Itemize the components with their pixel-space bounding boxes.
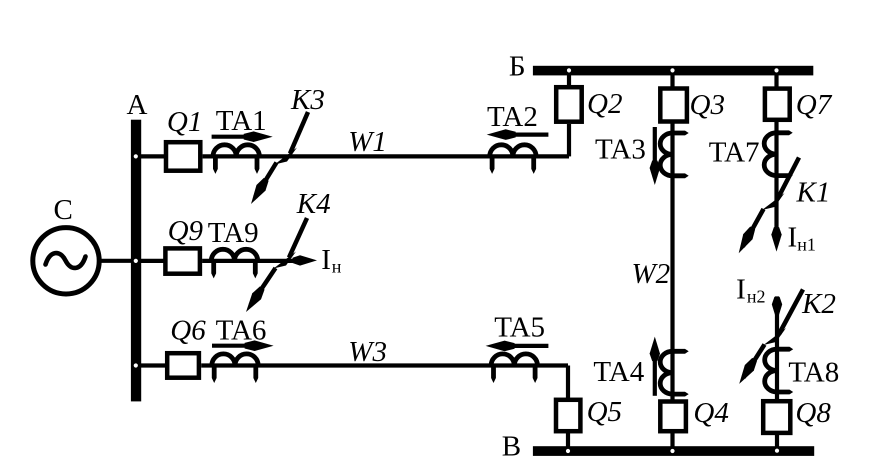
svg-text:TA6: TA6 — [216, 315, 267, 347]
svg-text:Q9: Q9 — [168, 215, 204, 247]
svg-text:Q8: Q8 — [795, 397, 831, 429]
svg-text:TA9: TA9 — [208, 217, 259, 249]
svg-text:K2: K2 — [801, 288, 836, 320]
svg-text:TA5: TA5 — [494, 312, 545, 344]
svg-text:н: н — [332, 256, 342, 276]
svg-text:W1: W1 — [348, 126, 387, 158]
svg-text:TA3: TA3 — [595, 134, 646, 166]
svg-text:Q6: Q6 — [170, 315, 206, 347]
svg-text:I: I — [788, 222, 798, 254]
svg-text:TA2: TA2 — [487, 101, 538, 133]
svg-text:TA7: TA7 — [709, 137, 760, 169]
svg-text:Q7: Q7 — [796, 89, 833, 121]
svg-text:W2: W2 — [632, 258, 671, 290]
svg-text:Q4: Q4 — [693, 397, 728, 429]
svg-text:TA4: TA4 — [593, 356, 644, 388]
svg-text:Q1: Q1 — [167, 106, 202, 138]
svg-text:K3: K3 — [290, 84, 325, 116]
svg-text:W3: W3 — [348, 336, 387, 368]
svg-text:K1: K1 — [796, 177, 831, 209]
svg-text:Q5: Q5 — [587, 396, 622, 428]
svg-text:Q3: Q3 — [690, 89, 725, 121]
svg-text:н2: н2 — [747, 287, 766, 307]
svg-text:I: I — [321, 244, 331, 276]
svg-text:В: В — [502, 430, 521, 462]
svg-text:A: A — [127, 89, 148, 121]
svg-text:C: C — [54, 194, 73, 226]
svg-text:н1: н1 — [797, 234, 816, 254]
svg-text:Q2: Q2 — [587, 88, 622, 120]
svg-text:K4: K4 — [296, 188, 331, 220]
svg-text:Б: Б — [509, 50, 526, 82]
svg-text:TA8: TA8 — [788, 356, 839, 388]
svg-text:I: I — [736, 274, 746, 306]
svg-text:TA1: TA1 — [216, 105, 267, 137]
